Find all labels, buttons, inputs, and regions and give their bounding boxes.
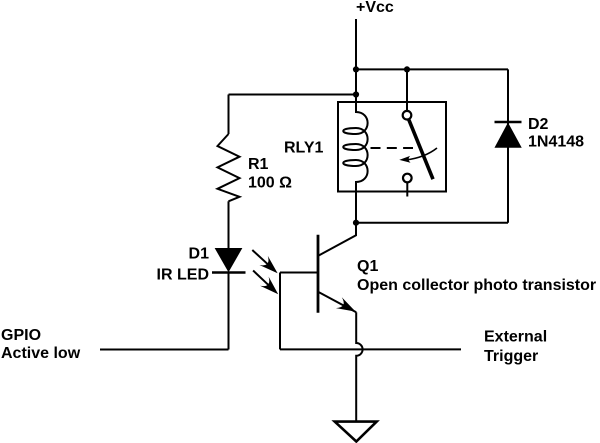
diode D1 triangle	[216, 249, 242, 272]
svg-text:Open collector photo transisto: Open collector photo transistor	[357, 277, 596, 294]
svg-text:D1: D1	[189, 246, 210, 263]
wire GPIO horizontal	[100, 349, 229, 351]
diode D2 triangle	[495, 124, 521, 148]
wire R1 top lead	[228, 95, 230, 135]
node junction dot at Vcc rail / switch branch	[404, 66, 410, 72]
relay switch blade	[409, 119, 433, 179]
wire D1 bottom lead	[228, 273, 230, 350]
node junction dot trunk / left branch	[353, 91, 359, 97]
wire bottom horizontal relay output to D2	[356, 222, 508, 224]
svg-text:Q1: Q1	[357, 258, 378, 275]
light arrow 2	[253, 271, 278, 295]
resistor R1	[218, 134, 240, 201]
svg-text:+Vcc: +Vcc	[356, 0, 394, 16]
transistor Q1 emitter lead	[319, 292, 357, 312]
wire external trigger horizontal	[280, 348, 461, 350]
svg-text:External: External	[484, 329, 547, 346]
optocoupler box left edge	[279, 273, 281, 350]
svg-text:1N4148: 1N4148	[528, 134, 584, 151]
wire top horizontal Vcc rail to D2	[356, 68, 508, 70]
wire coil bottom to junction	[355, 192, 357, 223]
svg-text:GPIO: GPIO	[1, 327, 41, 344]
ground symbol	[335, 422, 377, 442]
svg-text:IR LED: IR LED	[157, 267, 209, 284]
transistor Q1 emitter arrowhead	[336, 297, 356, 311]
node junction dot at Vcc rail / trunk	[353, 66, 359, 72]
svg-text:D2: D2	[528, 116, 549, 133]
wire R1 to D1	[228, 201, 230, 249]
diode D2 cathode bar	[495, 121, 522, 124]
svg-text:RLY1: RLY1	[284, 140, 324, 157]
wire switch top lead	[406, 69, 408, 110]
relay RLY1 box	[338, 102, 446, 192]
relay actuation dashed link	[371, 147, 414, 149]
relay switch top terminal circle	[403, 111, 412, 120]
svg-text:Trigger: Trigger	[484, 348, 538, 365]
diode D1 cathode bar	[212, 271, 246, 274]
wire emitter vertical with hop over trigger wire	[356, 312, 362, 421]
relay switch bottom terminal circle	[403, 174, 412, 183]
transistor Q1 collector lead	[319, 223, 357, 256]
relay actuation curved arrow	[399, 148, 437, 163]
wire D2 right vertical	[507, 69, 509, 222]
node junction dot at collector / coil / D2	[353, 220, 359, 226]
wire switch bottom stub	[406, 183, 408, 197]
wire left horizontal trunk to R1	[229, 94, 357, 96]
optocoupler box top edge	[280, 272, 318, 274]
wire Vcc vertical trunk	[355, 19, 357, 102]
svg-text:100 Ω: 100 Ω	[248, 175, 292, 192]
light arrow 1	[252, 250, 277, 273]
relay coil	[343, 102, 367, 192]
svg-text:Active low: Active low	[1, 345, 81, 362]
svg-text:R1: R1	[248, 156, 269, 173]
transistor Q1 base bar	[317, 235, 320, 313]
